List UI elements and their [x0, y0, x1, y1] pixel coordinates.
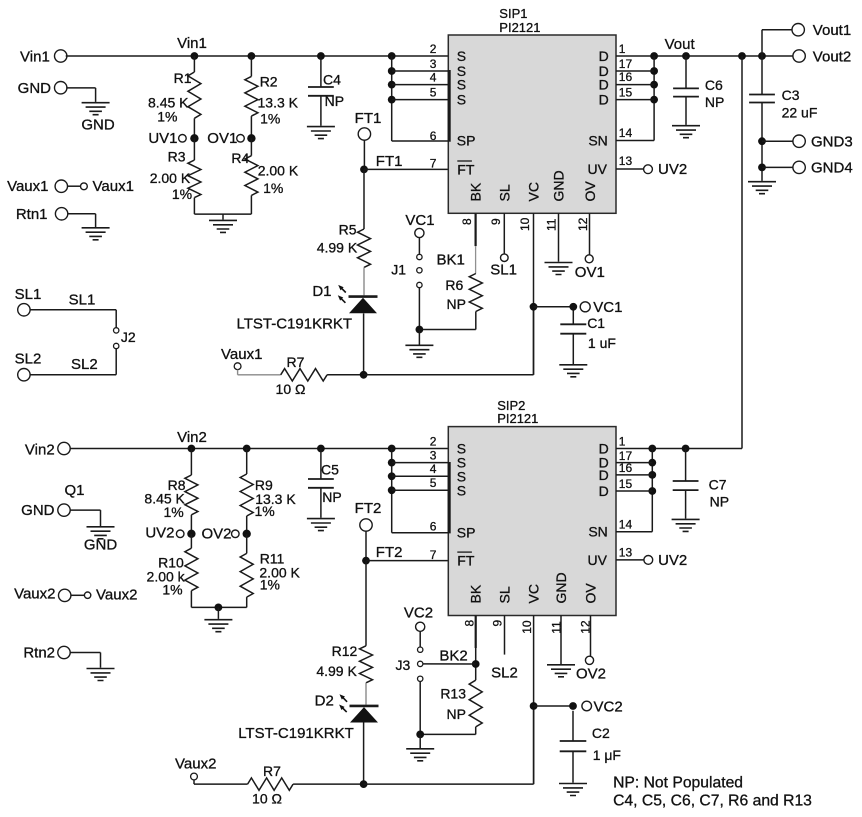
svg-text:9: 9 [489, 218, 503, 225]
pin Vaux1 [81, 183, 88, 190]
wire pin8 BK [475, 213, 477, 246]
wire pin4 [392, 84, 449, 86]
wire D bus2 vertical [651, 449, 653, 532]
svg-text:12: 12 [576, 217, 590, 231]
svg-text:PI2121: PI2121 [499, 20, 540, 35]
svg-text:Vout: Vout [665, 36, 696, 53]
svg-text:4: 4 [430, 71, 437, 85]
svg-text:SN: SN [588, 524, 607, 540]
pin OV1 [585, 255, 593, 263]
ground GND terminal [82, 103, 110, 115]
chip2 left edge thick bar [448, 462, 451, 533]
svg-text:7: 7 [430, 548, 437, 562]
svg-text:13: 13 [619, 545, 633, 559]
svg-text:SL2: SL2 [491, 664, 518, 681]
junction bus2 pin5 [388, 486, 396, 494]
wire pin5 [392, 99, 449, 101]
junction bus2 pin4 [388, 472, 396, 480]
svg-text:15: 15 [619, 86, 633, 100]
ground C4 [307, 127, 335, 139]
svg-text:OV2: OV2 [576, 666, 606, 683]
svg-text:VC: VC [525, 584, 541, 603]
svg-text:SN: SN [588, 133, 607, 149]
wire R7 line to VC column [364, 374, 534, 376]
svg-text:OV: OV [582, 583, 598, 604]
wire pin9 SL chip2 [504, 616, 506, 655]
wire pin5 chip2 [392, 489, 449, 491]
svg-text:J3: J3 [396, 657, 411, 673]
junction Vin2-bus [388, 445, 396, 453]
junction bus2 pin16 [648, 471, 656, 479]
ground C7 [672, 519, 700, 531]
svg-text:C7: C7 [709, 476, 727, 492]
terminal Vout2 [793, 50, 805, 62]
junction bus2 pin17 [648, 459, 656, 467]
junction D1-R7 [360, 371, 368, 379]
svg-text:GND: GND [84, 537, 118, 554]
svg-text:1%: 1% [162, 582, 182, 598]
svg-text:UV: UV [588, 161, 608, 177]
ground pin11 chip2 [547, 665, 575, 677]
junction Vin2-R8 [188, 445, 196, 453]
svg-text:10: 10 [518, 217, 532, 231]
wire Vout rail [616, 55, 793, 57]
node VC2 [569, 702, 577, 710]
wire D1 anode down [363, 313, 365, 374]
wire GND terminal [66, 87, 95, 89]
svg-text:5: 5 [430, 86, 437, 100]
resistor R3 2.00K [193, 138, 195, 160]
wire J3 bottom [419, 682, 421, 735]
svg-text:NP: NP [325, 93, 344, 109]
svg-text:D1: D1 [312, 283, 331, 300]
ground J3 [406, 749, 434, 761]
wire Rtn2 [70, 652, 101, 654]
wire R7b line to VC column [364, 783, 534, 785]
junction Vin2-R9 [243, 445, 251, 453]
resistor R4 2.00K [250, 138, 252, 156]
pin SL1 [501, 254, 509, 262]
svg-text:R2: R2 [260, 74, 278, 90]
wire pin3 [392, 70, 449, 72]
resistor R9 13.3K [246, 449, 248, 475]
svg-text:SL: SL [496, 184, 512, 201]
svg-text:1: 1 [619, 435, 626, 449]
svg-text:SL: SL [496, 586, 512, 603]
junction Vout-interconnect [738, 52, 746, 60]
svg-text:D: D [599, 77, 609, 93]
wire Vaux1 stub [67, 185, 80, 187]
svg-text:UV: UV [588, 552, 608, 568]
wire VC2 link [534, 705, 571, 707]
wire R7b to junction [293, 783, 364, 785]
svg-text:1%: 1% [157, 108, 177, 124]
svg-text:OV: OV [582, 181, 598, 202]
resistor R6 NP [469, 274, 482, 312]
svg-text:VC2: VC2 [594, 698, 623, 715]
terminal Vout1 [792, 24, 804, 36]
junction Vin2-C5 [317, 445, 325, 453]
svg-text:FT: FT [457, 553, 475, 569]
svg-text:1 μF: 1 μF [593, 747, 621, 763]
svg-text:3: 3 [430, 448, 437, 462]
svg-text:D: D [599, 48, 609, 64]
svg-text:4: 4 [430, 462, 437, 476]
wire SL2 [115, 349, 117, 375]
arrows D1 [338, 285, 346, 293]
svg-text:Vaux1: Vaux1 [93, 178, 134, 195]
resistor R1 8.45K [193, 56, 195, 72]
wire VC to VC1 [534, 306, 572, 308]
chip1 left edge thick bar [448, 70, 451, 142]
ground divider1 [209, 220, 237, 232]
junction bus2 pin15 [648, 487, 656, 495]
svg-text:R6: R6 [445, 277, 463, 293]
svg-text:OV1: OV1 [207, 130, 237, 147]
svg-text:SL1: SL1 [490, 261, 517, 278]
junction BK2 [472, 660, 480, 668]
svg-text:J2: J2 [121, 329, 136, 345]
wire GND2 [70, 509, 101, 511]
resistor R11 2.00K [246, 534, 248, 553]
svg-text:Rtn2: Rtn2 [23, 645, 55, 662]
junction bus pin15 [650, 96, 658, 104]
jumper J2 [114, 328, 119, 333]
svg-text:Q1: Q1 [64, 482, 84, 499]
capacitor C3 22uF [761, 56, 763, 95]
svg-text:BK: BK [467, 182, 483, 201]
junction GND3 [758, 137, 766, 145]
junction Vin1-bus [388, 52, 396, 60]
wire FT2 down [365, 531, 367, 561]
wire interconnect Vout to SIP2 [741, 56, 743, 449]
wire divider2 bottom [191, 606, 246, 608]
svg-text:Vin1: Vin1 [20, 48, 50, 65]
wire pin14 SN chip2 [616, 531, 652, 533]
capacitor C7 NP [685, 449, 687, 482]
svg-text:R7: R7 [263, 763, 281, 779]
svg-text:BK: BK [468, 584, 484, 603]
svg-text:J1: J1 [391, 262, 406, 278]
wire pin7 FT [364, 168, 448, 170]
svg-text:Vaux1: Vaux1 [7, 178, 48, 195]
svg-text:R4: R4 [231, 150, 249, 166]
svg-text:1%: 1% [260, 111, 280, 127]
svg-text:D: D [599, 92, 609, 108]
svg-text:C4, C5, C6, C7, R6 and R13: C4, C5, C6, C7, R6 and R13 [613, 793, 812, 810]
wire pin10 VC chip2 [533, 616, 535, 785]
wire D bus vertical [653, 56, 655, 141]
svg-text:GND4: GND4 [811, 160, 853, 177]
svg-text:Vaux2: Vaux2 [175, 756, 216, 773]
svg-text:R12: R12 [332, 643, 358, 659]
wire pin16 chip2 [616, 474, 652, 476]
svg-text:D: D [599, 483, 609, 499]
wire pin8 BK chip2 [475, 616, 477, 649]
svg-text:SP: SP [457, 525, 476, 541]
svg-text:9: 9 [491, 620, 505, 627]
junction J1 ground [416, 326, 424, 334]
capacitor C2 1uF [572, 711, 574, 741]
svg-text:FT: FT [457, 162, 475, 178]
svg-text:10 Ω: 10 Ω [252, 791, 282, 807]
wire R5 to D1 [363, 267, 365, 295]
svg-text:SL2: SL2 [15, 351, 42, 368]
svg-text:1%: 1% [163, 504, 183, 520]
arrows D2 [340, 694, 348, 702]
svg-text:Vin1: Vin1 [177, 35, 207, 52]
svg-text:1: 1 [619, 42, 626, 56]
pin UV2 top [644, 165, 653, 174]
svg-text:C5: C5 [321, 462, 339, 478]
svg-text:C2: C2 [592, 725, 610, 741]
wire divider bottom [194, 213, 251, 215]
ground C6 [672, 126, 700, 138]
wire Rtn1 [68, 213, 96, 215]
svg-text:4.99 K: 4.99 K [317, 240, 358, 256]
junction bus pin5 [388, 96, 396, 104]
svg-text:UV2: UV2 [658, 161, 687, 178]
svg-text:SL1: SL1 [69, 292, 96, 309]
resistor R8 8.45K [190, 449, 192, 476]
svg-text:1%: 1% [263, 180, 283, 196]
svg-text:22 uF: 22 uF [782, 104, 818, 120]
resistor R10 2.00k [190, 534, 192, 548]
wire pin6 SP chip2 [392, 532, 449, 534]
wire FT1 down [363, 140, 365, 170]
svg-text:VC2: VC2 [404, 604, 433, 621]
wire pin17 chip2 [616, 462, 652, 464]
wire FT2 to R12 [365, 561, 367, 646]
junction D2-R7 [360, 780, 368, 788]
ground divider2 [204, 620, 232, 632]
svg-text:R7: R7 [287, 354, 305, 370]
svg-text:2.00 K: 2.00 K [150, 170, 191, 186]
ground Rtn1 [82, 228, 110, 240]
svg-text:D2: D2 [315, 693, 334, 710]
svg-text:2: 2 [430, 42, 437, 56]
node FT1 [360, 166, 368, 174]
junction Vin1-R1 [191, 52, 199, 60]
pin UV2 bottom [644, 556, 653, 565]
svg-text:FT2: FT2 [355, 500, 382, 517]
ground J1 [405, 345, 433, 357]
svg-text:Vout1: Vout1 [813, 22, 851, 39]
junction bus pin4 [388, 81, 396, 89]
svg-text:S: S [457, 482, 466, 498]
wire pin4 chip2 [392, 475, 449, 477]
resistor R7 10ohm [281, 369, 327, 381]
svg-text:7: 7 [430, 157, 437, 171]
svg-text:UV2: UV2 [658, 552, 687, 569]
svg-text:R1: R1 [174, 70, 192, 86]
junction Vin1-R2 [248, 52, 256, 60]
svg-text:SP: SP [457, 133, 476, 149]
svg-text:1%: 1% [255, 503, 275, 519]
wire FT1 to R5 [363, 169, 365, 229]
svg-text:Vin2: Vin2 [177, 429, 207, 446]
svg-text:D: D [599, 467, 609, 483]
junction bus pin3 [388, 67, 396, 75]
wire pin11 GND [558, 213, 560, 261]
svg-text:GND: GND [81, 117, 115, 134]
svg-text:S: S [457, 77, 466, 93]
junction GND4 [758, 164, 766, 172]
wire pin15 [616, 99, 654, 101]
svg-text:VC: VC [525, 182, 541, 201]
svg-text:Vaux2: Vaux2 [14, 586, 55, 603]
wire D2 anode down [363, 723, 365, 785]
svg-text:NP: NP [322, 489, 341, 505]
svg-text:10: 10 [520, 620, 534, 634]
svg-text:13.3 K: 13.3 K [258, 94, 299, 110]
ground C1 [559, 365, 587, 377]
wire Vaux1 to R7 [237, 370, 239, 375]
ground pin11 [545, 263, 573, 275]
wire R6 to J1 [475, 312, 477, 330]
svg-text:5: 5 [430, 476, 437, 490]
wire J3 middle to BK2 [423, 663, 476, 665]
wire Vin2 rail [70, 448, 449, 450]
svg-text:S: S [457, 92, 466, 108]
svg-text:NP: NP [710, 493, 729, 509]
resistor R7 10ohm lower [248, 778, 294, 790]
wire pin12 OV chip2 [590, 616, 592, 657]
svg-text:SL1: SL1 [15, 286, 42, 303]
ground C3 [748, 182, 776, 194]
svg-text:VC1: VC1 [405, 212, 434, 229]
pin OV2 [585, 656, 593, 664]
svg-text:1%: 1% [260, 577, 280, 593]
svg-text:15: 15 [619, 477, 633, 491]
ground GND2 terminal [87, 527, 115, 539]
svg-text:Vaux2: Vaux2 [96, 586, 137, 603]
svg-text:LTST-C191KRKT: LTST-C191KRKT [237, 316, 353, 333]
junction VC2 pin10 [530, 702, 538, 710]
svg-text:8: 8 [460, 218, 474, 225]
svg-text:GND3: GND3 [811, 134, 853, 151]
wire pin15 chip2 [616, 490, 652, 492]
wire pin13 UV [616, 168, 644, 170]
svg-text:GND: GND [553, 572, 569, 603]
capacitor C4 NP [320, 56, 322, 87]
svg-text:Vin2: Vin2 [25, 441, 55, 458]
wire R12 to D2 [365, 683, 367, 705]
ground C2 [559, 784, 587, 796]
svg-text:3: 3 [430, 57, 437, 71]
svg-text:VC1: VC1 [593, 299, 622, 316]
svg-text:C1: C1 [587, 315, 605, 331]
junction divider2 ground [215, 604, 223, 612]
junction Vin1-C4 [317, 52, 325, 60]
wire pin3 chip2 [392, 462, 449, 464]
svg-text:LTST-C191KRKT: LTST-C191KRKT [238, 725, 354, 742]
resistor R13 NP [469, 680, 482, 727]
svg-text:Rtn1: Rtn1 [16, 206, 48, 223]
wire S bus2 vertical [391, 449, 393, 533]
svg-text:FT2: FT2 [376, 544, 403, 561]
svg-text:FT1: FT1 [376, 153, 403, 170]
wire pin12 OV [589, 213, 591, 254]
svg-text:13: 13 [619, 154, 633, 168]
resistor R5 4.99K [358, 229, 371, 267]
svg-text:R3: R3 [168, 148, 186, 164]
svg-text:SL2: SL2 [71, 356, 98, 373]
svg-text:1%: 1% [172, 186, 192, 202]
svg-text:R13: R13 [440, 686, 466, 702]
svg-text:6: 6 [430, 520, 437, 534]
svg-text:UV1: UV1 [148, 130, 177, 147]
svg-text:2: 2 [430, 434, 437, 448]
svg-text:Vaux1: Vaux1 [221, 346, 262, 363]
LED D1 [349, 295, 378, 298]
ground Rtn2 [87, 669, 115, 681]
resistor R12 4.99K [360, 646, 373, 683]
junction VC pin10 [530, 303, 538, 311]
svg-text:C6: C6 [705, 77, 723, 93]
svg-text:10 Ω: 10 Ω [276, 381, 306, 397]
junction Vout-C6 [682, 52, 690, 60]
svg-text:14: 14 [619, 518, 633, 532]
svg-text:GND: GND [550, 170, 566, 201]
wire S bus vertical [391, 56, 393, 141]
ground C5 [307, 519, 335, 531]
svg-text:BK2: BK2 [439, 647, 467, 664]
svg-text:NP: NP [447, 706, 466, 722]
wire GND3 [762, 140, 793, 142]
capacitor C6 NP [685, 56, 687, 88]
wire pin16 [616, 84, 654, 86]
svg-text:OV1: OV1 [575, 264, 605, 281]
junction Vout-Vout1 [758, 52, 766, 60]
svg-text:UV2: UV2 [145, 525, 174, 542]
svg-text:16: 16 [619, 70, 633, 84]
wire Vout1 branch [761, 30, 763, 56]
svg-text:NP: NP [447, 296, 466, 312]
wire pin17 [616, 70, 654, 72]
junction Vout-bus [650, 52, 658, 60]
wire R7 to VC riser [327, 374, 364, 376]
capacitor C5 NP [320, 449, 322, 480]
svg-text:BK1: BK1 [436, 252, 464, 269]
svg-text:11: 11 [544, 218, 558, 231]
svg-text:OV2: OV2 [201, 526, 231, 543]
svg-text:C4: C4 [323, 72, 341, 88]
svg-text:2.00 K: 2.00 K [258, 163, 299, 179]
svg-text:GND: GND [18, 80, 52, 97]
wire pin14 SN [616, 140, 654, 142]
wire pin6 SP [392, 140, 449, 142]
terminal GND3 [793, 135, 805, 147]
svg-text:SIP1: SIP1 [499, 6, 527, 21]
svg-text:PI2121: PI2121 [497, 411, 538, 426]
terminal GND4 [793, 161, 805, 173]
svg-text:FT1: FT1 [355, 110, 382, 127]
wire pin9 SL [503, 213, 505, 254]
svg-text:4.99 K: 4.99 K [316, 663, 357, 679]
wire GND4 [762, 166, 793, 168]
svg-text:14: 14 [619, 126, 633, 140]
junction bus2 pin3 [388, 459, 396, 467]
svg-text:1 uF: 1 uF [588, 335, 616, 351]
LED D2 [350, 705, 379, 708]
svg-text:NP: NP [705, 94, 724, 110]
svg-text:GND: GND [21, 502, 55, 519]
wire pin10 VC [533, 213, 535, 374]
node FT2 [362, 557, 370, 565]
junction bus pin17 [650, 67, 658, 75]
capacitor C1 1uF [572, 310, 574, 324]
